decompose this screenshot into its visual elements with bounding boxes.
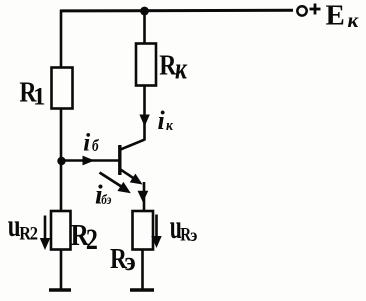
wire from top junction down to Rk — [143, 11, 146, 44]
svg-text:2: 2 — [86, 223, 98, 256]
transistor Q1 base bar — [118, 145, 121, 175]
svg-text:э: э — [190, 225, 197, 245]
resistor R2 — [51, 211, 71, 250]
arrow uR2 voltage — [44, 216, 47, 241]
svg-text:э: э — [125, 247, 136, 276]
node base junction dot — [57, 157, 65, 165]
svg-text:1: 1 — [33, 84, 46, 111]
wire from Re to ground bar — [141, 250, 144, 290]
wire left vertical from rail to R1 — [60, 10, 63, 68]
wire from R2 to ground bar — [60, 250, 63, 290]
ground left terminal bar — [49, 288, 71, 292]
wire left vertical from R1 to R2 — [60, 109, 63, 213]
resistor Rk — [136, 44, 156, 86]
svg-text:2: 2 — [30, 222, 38, 243]
svg-text:к: к — [348, 8, 360, 32]
transistor Q1 collector lead — [121, 139, 146, 149]
transistor Q1 emitter lead — [121, 170, 141, 183]
arrow ik on collector wire — [139, 115, 149, 127]
ground right terminal bar — [130, 288, 154, 292]
arrow uRe voltage — [155, 215, 158, 239]
wire base horizontal — [61, 159, 119, 162]
svg-text:к: к — [166, 117, 174, 134]
wire top horizontal rail — [60, 9, 293, 13]
node top junction dot — [140, 7, 149, 16]
svg-text:i: i — [83, 129, 90, 156]
transistor Q1 emitter arrowhead — [130, 174, 146, 189]
resistor R1 — [52, 68, 73, 109]
arrow ib on base wire — [83, 156, 95, 166]
arrow ie on emitter vertical wire — [138, 191, 149, 203]
svg-text:i: i — [158, 106, 166, 135]
wire emitter vertical down to Re — [143, 182, 146, 212]
svg-text:к: к — [175, 51, 188, 85]
svg-text:E: E — [326, 0, 345, 32]
resistor Re — [133, 211, 154, 250]
svg-text:бэ: бэ — [101, 192, 111, 207]
wire collector vertical from Rk to transistor — [143, 86, 146, 141]
arrow ibe diagonal — [100, 173, 127, 190]
terminal Ek open circle — [297, 6, 306, 15]
plus sign — [310, 8, 321, 11]
